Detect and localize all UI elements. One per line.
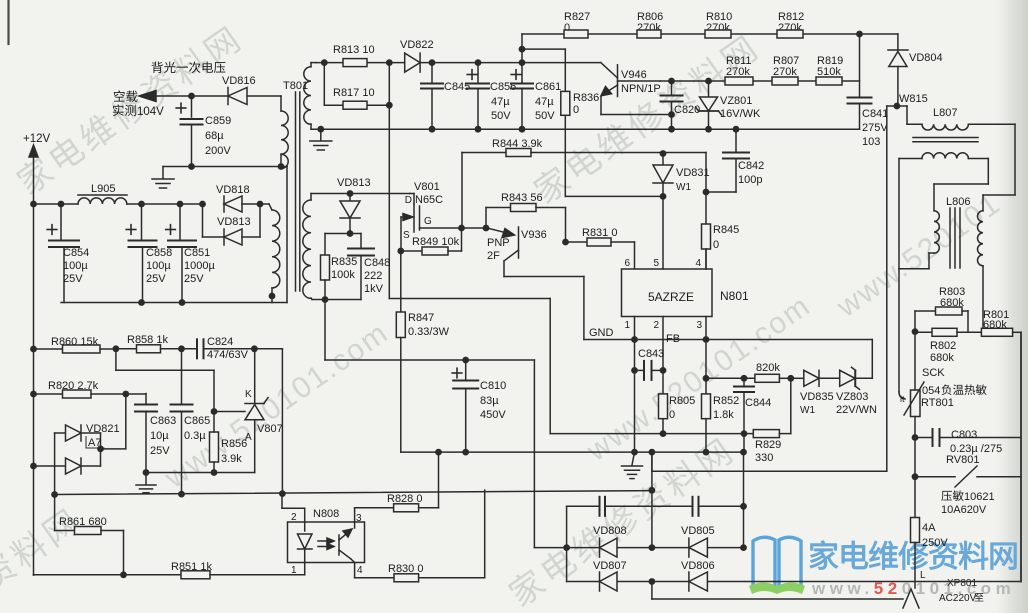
junction top bus right xyxy=(856,31,863,38)
svg-text:W815: W815 xyxy=(899,93,928,105)
junction R820 right xyxy=(122,391,129,398)
wire VCC corner to C842/R845 xyxy=(705,153,707,193)
svg-text:V946: V946 xyxy=(621,69,647,81)
wire R851 rail xyxy=(34,574,182,576)
svg-text:C859: C859 xyxy=(205,115,231,127)
junction VZ801 top xyxy=(705,78,712,85)
svg-text:0.33/3W: 0.33/3W xyxy=(408,326,450,338)
svg-text:5AZRZE: 5AZRZE xyxy=(648,290,694,304)
wire W815 to L807 top xyxy=(897,106,907,124)
svg-text:VD818: VD818 xyxy=(216,184,250,196)
thermistor RT801 leads xyxy=(914,332,916,436)
junction C845 bottom xyxy=(429,126,436,133)
wire R858 sense branch xyxy=(116,349,214,412)
wire bridge row2 xyxy=(567,581,1021,583)
wire AC-L drop to RT801 area xyxy=(899,269,905,399)
svg-text:PNP: PNP xyxy=(487,237,510,249)
junction C856 top xyxy=(475,59,482,66)
svg-text:1000µ: 1000µ xyxy=(184,260,215,272)
junction C844 bottom xyxy=(740,449,747,456)
inductor L806 left winding xyxy=(899,211,939,269)
capacitor C863 xyxy=(135,394,176,473)
resistor R858 xyxy=(116,334,197,353)
svg-text:47µ: 47µ xyxy=(491,96,510,108)
wire top bus corner down xyxy=(897,34,899,50)
wire R844 to gate node xyxy=(461,153,463,229)
svg-text:330: 330 xyxy=(755,452,773,464)
junction C858 bottom xyxy=(138,299,145,306)
pin 3 label xyxy=(355,508,362,524)
transformer T801 left-bottom winding xyxy=(272,210,280,288)
wire DC+ rail y360 xyxy=(325,360,534,548)
svg-text:10µ: 10µ xyxy=(150,430,169,442)
capacitor C843 xyxy=(635,348,665,380)
junction VD818 left xyxy=(199,201,206,208)
net GND label xyxy=(589,327,614,339)
svg-text:RV801: RV801 xyxy=(946,454,979,466)
svg-text:50V: 50V xyxy=(535,110,555,122)
svg-text:270k: 270k xyxy=(726,66,750,78)
pin 4 label xyxy=(355,563,363,578)
scan artifact left edge xyxy=(7,0,9,44)
ground primary main xyxy=(622,452,643,479)
svg-text:R802: R802 xyxy=(930,340,956,352)
svg-text:C858: C858 xyxy=(146,247,172,259)
wire R817 branch xyxy=(324,63,389,106)
wire VD821 left tie xyxy=(54,433,56,531)
svg-text:K: K xyxy=(245,389,252,400)
decor logo book icon xyxy=(749,537,805,594)
svg-text:474/63V: 474/63V xyxy=(207,349,249,361)
diode VD805 xyxy=(681,525,715,557)
wire bridge cap row xyxy=(567,506,744,581)
svg-text:V807: V807 xyxy=(257,423,283,435)
junction C844/R829 tap xyxy=(741,430,748,437)
wire gate to V936 emitter xyxy=(462,227,488,229)
svg-text:C810: C810 xyxy=(480,380,506,392)
junction R856 bottom xyxy=(211,469,218,476)
capacitor bridge snubber 1 xyxy=(600,497,606,516)
wire bus y81 xyxy=(660,80,860,82)
wire cold rail y494 xyxy=(55,491,652,495)
junction pin5/R836 node xyxy=(660,193,667,200)
transistor V936 labels xyxy=(487,229,547,262)
net L label xyxy=(920,570,926,581)
svg-text:2F: 2F xyxy=(487,250,500,262)
pin 3 xyxy=(696,320,702,331)
wire bridge row1 xyxy=(534,547,743,549)
wire source sense y298 xyxy=(389,298,550,300)
diode VD816 xyxy=(222,75,256,105)
svg-text:100p: 100p xyxy=(738,174,762,186)
node 背光一次电压 label xyxy=(152,61,226,73)
junction T801 primary bottom xyxy=(278,163,285,170)
svg-text:4: 4 xyxy=(357,565,363,576)
svg-text:0.3µ: 0.3µ xyxy=(184,430,206,442)
svg-text:R813 10: R813 10 xyxy=(333,44,375,56)
svg-text:N65C: N65C xyxy=(415,194,443,206)
wire +12V rail xyxy=(34,203,270,205)
svg-text:R849 10k: R849 10k xyxy=(412,236,460,248)
junction row1 right xyxy=(740,544,747,551)
svg-text:C854: C854 xyxy=(63,247,89,259)
junction C845 top xyxy=(429,59,436,66)
svg-text:C848: C848 xyxy=(364,257,390,269)
svg-text:100µ: 100µ xyxy=(146,260,171,272)
junction R805 bottom xyxy=(660,430,667,437)
svg-text:275V: 275V xyxy=(862,122,888,134)
wire V807 gate xyxy=(214,411,245,413)
svg-text:G: G xyxy=(424,216,432,227)
junction C859 bottom xyxy=(188,163,195,170)
svg-text:S: S xyxy=(403,230,410,241)
junction VD821 left tie xyxy=(30,463,37,470)
junction R831 left xyxy=(562,239,569,246)
wire left-bottom winding leads xyxy=(269,204,272,303)
resistor R810 xyxy=(705,11,732,38)
net FB label xyxy=(666,333,680,345)
junction gate/R844 xyxy=(458,225,465,232)
wire bridge DC link xyxy=(651,452,653,547)
power +12V xyxy=(23,133,51,204)
junction R858 right/C865 xyxy=(178,345,185,352)
junction pin3 tap xyxy=(703,336,710,343)
diode VD804 xyxy=(888,50,943,106)
junction C854 top xyxy=(58,201,65,208)
capacitor C861 xyxy=(511,70,561,130)
junction C851 bottom xyxy=(179,299,186,306)
wire R827 left drop xyxy=(521,34,523,82)
opto transistor xyxy=(339,522,355,563)
svg-text:R831 0: R831 0 xyxy=(582,227,617,239)
svg-text:68µ: 68µ xyxy=(205,130,224,142)
wire AC line to plug xyxy=(652,582,903,600)
transformer T801 right-bottom winding xyxy=(303,194,312,300)
varistor RV801 xyxy=(915,454,1021,516)
svg-text:3: 3 xyxy=(356,513,362,524)
svg-text:R817 10: R817 10 xyxy=(333,87,375,99)
resistor R820 xyxy=(34,380,147,398)
transistor V936 PNP xyxy=(487,227,519,277)
svg-text:1.8k: 1.8k xyxy=(713,409,734,421)
svg-text:lt: lt xyxy=(900,394,905,404)
svg-text:VD808: VD808 xyxy=(593,525,627,537)
junction R858 left xyxy=(113,345,120,352)
pin 4 xyxy=(695,258,701,269)
capacitor C858 xyxy=(126,204,172,303)
svg-text:XP801: XP801 xyxy=(947,578,977,589)
thermistor RT801 xyxy=(900,367,987,417)
wire R843 left to emitter node xyxy=(485,208,487,229)
wire FB divider y433 xyxy=(550,299,744,434)
svg-text:270k: 270k xyxy=(773,66,797,78)
diode VD835 xyxy=(791,370,840,416)
junction gate wire to V936 xyxy=(483,225,490,232)
junction pin1/C843 xyxy=(631,367,638,374)
value A7 bracket xyxy=(86,437,104,450)
wire T801 left-top winding bottom to lower rail xyxy=(281,167,287,303)
junction R817 right xyxy=(386,102,393,109)
wire snubber2 bottom rail xyxy=(312,299,361,301)
svg-text:R852: R852 xyxy=(713,395,739,407)
resistor R828 xyxy=(355,452,439,512)
svg-text:AC220V: AC220V xyxy=(939,593,977,604)
inductor L807 bottom winding xyxy=(899,153,988,211)
svg-text:VD813: VD813 xyxy=(337,177,371,189)
inductor L807 label xyxy=(933,107,957,119)
junction C861 bottom xyxy=(519,126,526,133)
resistor R801 xyxy=(981,309,1021,582)
svg-text:4: 4 xyxy=(695,258,701,269)
svg-text:L806: L806 xyxy=(946,196,970,208)
wire to R836 top xyxy=(522,49,565,91)
wire VD821 to R820 node xyxy=(101,394,126,449)
svg-text:5: 5 xyxy=(653,258,659,269)
svg-text:C803: C803 xyxy=(951,429,977,441)
svg-text:50V: 50V xyxy=(491,110,511,122)
svg-text:C843: C843 xyxy=(638,348,664,360)
diode VD822 xyxy=(400,39,434,72)
inductor L806 label xyxy=(946,196,970,208)
svg-text:D: D xyxy=(405,195,412,206)
inductor L807 core xyxy=(913,138,978,142)
resistor R807 xyxy=(772,55,799,85)
svg-text:VD831: VD831 xyxy=(676,167,710,179)
svg-text:VD813: VD813 xyxy=(217,216,251,228)
wire AC return link y471 xyxy=(652,452,887,471)
wire top bus y34 xyxy=(522,33,898,35)
junction VD821 tie on rail xyxy=(51,491,58,498)
svg-text:C865: C865 xyxy=(184,415,210,427)
svg-text:200V: 200V xyxy=(205,145,231,157)
wire 820k feed y378 xyxy=(706,377,755,379)
fuse FU 4A xyxy=(911,518,949,589)
junction R861 right on R851 wire xyxy=(120,571,127,578)
svg-text:1: 1 xyxy=(291,565,297,576)
svg-text:83µ: 83µ xyxy=(480,395,499,407)
resistor R829 xyxy=(744,378,791,464)
resistor R805 xyxy=(659,394,696,434)
svg-text:3.9k: 3.9k xyxy=(221,453,242,465)
svg-text:R845: R845 xyxy=(713,224,739,236)
diode VD821b xyxy=(34,449,101,474)
op-amp U N801 box xyxy=(622,269,750,317)
capacitor C845 xyxy=(421,63,470,130)
opto arrows xyxy=(318,538,334,550)
svg-text:680k: 680k xyxy=(930,352,954,364)
resistor R806 xyxy=(637,11,663,38)
opto LED xyxy=(298,522,313,563)
junction R813 left xyxy=(321,59,328,66)
diode VD813 xyxy=(337,177,371,234)
capacitor bridge snubber 2 xyxy=(693,497,699,516)
wire +B top rail y63 xyxy=(316,62,601,64)
wire pin2 FB xyxy=(662,317,664,394)
junction C844 top xyxy=(741,375,748,382)
svg-text:25V: 25V xyxy=(150,445,170,457)
svg-text:100k: 100k xyxy=(331,269,355,281)
svg-text:L807: L807 xyxy=(933,107,957,119)
svg-text:L905: L905 xyxy=(91,183,115,195)
wire V946 emitter to C820 xyxy=(601,97,672,115)
svg-text:0: 0 xyxy=(573,104,579,116)
wire hot-reg rail y472 xyxy=(146,472,255,474)
svg-text:2: 2 xyxy=(291,512,297,523)
junction C861 top/base node xyxy=(519,59,526,66)
junction pin1 gnd on rail xyxy=(631,449,638,456)
wire +12V left vertical xyxy=(33,204,35,575)
resistor R827 xyxy=(564,11,590,38)
node 空载/实测104V load-measure label xyxy=(113,90,164,118)
capacitor C865 xyxy=(171,349,211,495)
resistor R860 xyxy=(34,336,116,353)
svg-text:R847: R847 xyxy=(408,312,434,324)
diode VD806 xyxy=(681,560,715,591)
resistor R836 xyxy=(561,91,599,196)
capacitor C851 xyxy=(166,204,216,303)
svg-text:47µ: 47µ xyxy=(535,96,554,108)
opto N808 box xyxy=(288,508,365,563)
capacitor C859 xyxy=(176,96,231,167)
capacitor C820 xyxy=(661,81,701,129)
junction RV801 left xyxy=(912,473,919,480)
wire rail to y360 xyxy=(324,300,326,361)
junction row1 mid xyxy=(649,544,656,551)
svg-text:L: L xyxy=(920,570,926,581)
wire W815 to AC return vertical xyxy=(887,106,897,471)
wire hot-gnd rail y452 xyxy=(401,451,744,453)
resistor R843 xyxy=(486,192,566,242)
zener VZ803 xyxy=(836,340,877,417)
svg-text:V936: V936 xyxy=(521,229,547,241)
junction R856 top node xyxy=(211,408,218,415)
junction VD835 left xyxy=(787,375,794,382)
svg-text:C851: C851 xyxy=(184,247,210,259)
ground T801 primary xyxy=(310,129,332,150)
capacitor C824 xyxy=(197,336,282,495)
junction bridge+ tap xyxy=(649,449,656,456)
junction R852 top xyxy=(703,375,710,382)
svg-text:222: 222 xyxy=(364,270,382,282)
svg-text:0: 0 xyxy=(713,239,719,251)
junction ground tap xyxy=(317,126,324,133)
pin 6 xyxy=(624,258,630,269)
resistor R861 xyxy=(55,516,124,575)
junction row2 mid xyxy=(649,578,656,585)
junction row1 left xyxy=(563,544,570,551)
capacitor C810 xyxy=(452,360,506,452)
junction cap row right xyxy=(740,503,747,510)
pin 1 xyxy=(624,320,630,331)
resistor R844 xyxy=(462,138,706,157)
svg-text:25V: 25V xyxy=(184,273,204,285)
resistor R849 xyxy=(401,228,462,255)
wire pin5 VCC xyxy=(662,196,664,269)
capacitor C803 xyxy=(915,429,1021,455)
svg-text:R836: R836 xyxy=(573,92,599,104)
junction C858 top xyxy=(138,201,145,208)
wire gnd rail to VZ803 link xyxy=(635,339,873,341)
junction pin2/C843 xyxy=(660,367,667,374)
junction C824 right node xyxy=(251,345,258,352)
junction R820 left xyxy=(30,391,37,398)
resistor R811 xyxy=(725,55,753,85)
junction C820 top xyxy=(668,78,675,85)
capacitor C842 xyxy=(706,129,764,192)
wire source down to R847 xyxy=(400,251,402,312)
svg-text:450V: 450V xyxy=(480,409,506,421)
wire V936 collector to GND rail xyxy=(504,277,635,340)
junction R835 bottom xyxy=(322,296,329,303)
svg-text:820k: 820k xyxy=(756,362,780,374)
svg-text:+12V: +12V xyxy=(23,133,51,145)
pin 5 xyxy=(653,258,659,269)
wire bus primary y129 xyxy=(311,128,860,130)
svg-text:510k: 510k xyxy=(817,66,841,78)
svg-text:N801: N801 xyxy=(720,289,749,303)
resistor R813 xyxy=(333,44,375,67)
junction C803 left xyxy=(912,434,919,441)
diode VD818 xyxy=(216,184,260,212)
decor logo url xyxy=(811,579,1015,598)
resistor R835 xyxy=(321,234,358,300)
junction R852 bottom xyxy=(703,449,710,456)
svg-text:RT801: RT801 xyxy=(921,397,954,409)
svg-text:VD804: VD804 xyxy=(909,52,943,64)
junction +12V rail corner xyxy=(30,201,37,208)
svg-text:VD816: VD816 xyxy=(222,75,256,87)
capacitor C841 xyxy=(848,34,889,148)
junction emitter/C820 lead xyxy=(668,111,675,118)
diode VD831 xyxy=(653,153,710,197)
transistor V946 labels xyxy=(621,69,661,95)
resistor R845 xyxy=(702,192,740,269)
svg-text:100µ: 100µ xyxy=(63,260,88,272)
pin 2 label xyxy=(282,494,305,523)
wire pin4 xyxy=(705,249,707,269)
junction VD818 right xyxy=(257,201,264,208)
inductor L807 top winding xyxy=(907,124,1015,195)
resistor R852 xyxy=(702,378,740,452)
wire pin1 gnd xyxy=(634,317,636,453)
wire R836 to VD831 cathode xyxy=(566,195,664,197)
wire pin3 xyxy=(705,317,707,379)
svg-text:R829: R829 xyxy=(755,439,781,451)
svg-text:W1: W1 xyxy=(676,182,691,193)
inductor L806 core xyxy=(950,208,960,268)
junction cold-rail to bridge xyxy=(649,487,656,494)
svg-text:4A: 4A xyxy=(922,522,936,534)
ground reg rail xyxy=(136,473,156,493)
svg-text:N808: N808 xyxy=(313,508,339,520)
junction C865 on cold rail xyxy=(178,491,185,498)
junction VD813 cathode xyxy=(347,230,354,237)
junction C824 branch on cold rail xyxy=(279,490,286,497)
resistor R802 xyxy=(915,328,981,364)
wire drain rail y193 xyxy=(311,193,410,195)
junction R802/RT801 node xyxy=(912,328,919,335)
diode VD813a parallel branch xyxy=(203,204,261,245)
transistor V801 MOSFET symbol xyxy=(401,194,420,252)
pin 1 label xyxy=(291,563,305,577)
svg-text:C861: C861 xyxy=(535,81,561,93)
junction R836 top tap xyxy=(519,46,526,53)
diode VD807 xyxy=(593,560,627,591)
ground near C859 xyxy=(152,167,174,189)
wire snubber vertical xyxy=(388,63,390,299)
resistor R847 xyxy=(396,312,449,452)
junction C820 bottom xyxy=(668,126,675,133)
